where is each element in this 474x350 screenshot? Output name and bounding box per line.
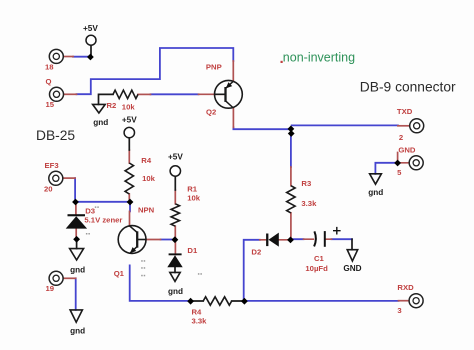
- svg-text:2: 2: [399, 133, 403, 142]
- svg-text:D2: D2: [251, 248, 261, 257]
- svg-text:D1: D1: [187, 246, 198, 255]
- svg-text:RXD: RXD: [397, 283, 414, 292]
- svg-text:5: 5: [397, 168, 402, 177]
- svg-text:R4: R4: [141, 156, 152, 165]
- svg-text:NPN: NPN: [138, 206, 155, 215]
- svg-text:gnd: gnd: [70, 266, 85, 275]
- svg-text:gnd: gnd: [93, 118, 108, 127]
- svg-text:19: 19: [46, 284, 55, 293]
- svg-text:R1: R1: [187, 185, 198, 194]
- svg-text:3.3k: 3.3k: [192, 317, 208, 326]
- svg-text:Q2: Q2: [206, 108, 216, 117]
- svg-text:TXD: TXD: [397, 107, 413, 116]
- svg-text:3: 3: [397, 306, 401, 315]
- svg-text:5.1V zener: 5.1V zener: [84, 216, 122, 225]
- svg-text:+5V: +5V: [122, 116, 137, 125]
- svg-text:10k: 10k: [122, 103, 136, 112]
- svg-text:gnd: gnd: [168, 287, 183, 296]
- svg-text:PNP: PNP: [206, 63, 222, 72]
- svg-text:gnd: gnd: [70, 327, 85, 336]
- svg-text:+5V: +5V: [83, 24, 98, 33]
- svg-text:non-inverting: non-inverting: [283, 51, 355, 65]
- svg-text:R3: R3: [301, 179, 311, 188]
- svg-text:20: 20: [44, 185, 53, 194]
- svg-text:GND: GND: [343, 264, 361, 273]
- svg-text:R4: R4: [192, 308, 203, 317]
- svg-text:10k: 10k: [142, 174, 156, 183]
- svg-text:15: 15: [46, 100, 55, 109]
- svg-text:gnd: gnd: [368, 188, 383, 197]
- svg-text:Q1: Q1: [114, 269, 125, 278]
- svg-text:DB-25: DB-25: [36, 128, 75, 143]
- svg-text:10µFd: 10µFd: [305, 264, 328, 273]
- svg-text:GND: GND: [398, 146, 416, 155]
- svg-text:D3: D3: [85, 207, 95, 216]
- svg-text:R2: R2: [107, 101, 117, 110]
- svg-text:DB-9 connector: DB-9 connector: [360, 80, 456, 95]
- svg-text:18: 18: [45, 63, 54, 72]
- svg-text:3.3k: 3.3k: [301, 199, 317, 208]
- svg-text:EF3: EF3: [45, 161, 59, 170]
- svg-text:Q: Q: [46, 77, 52, 86]
- svg-text:C1: C1: [314, 254, 325, 263]
- svg-text:+5V: +5V: [168, 153, 183, 162]
- svg-text:10k: 10k: [187, 194, 201, 203]
